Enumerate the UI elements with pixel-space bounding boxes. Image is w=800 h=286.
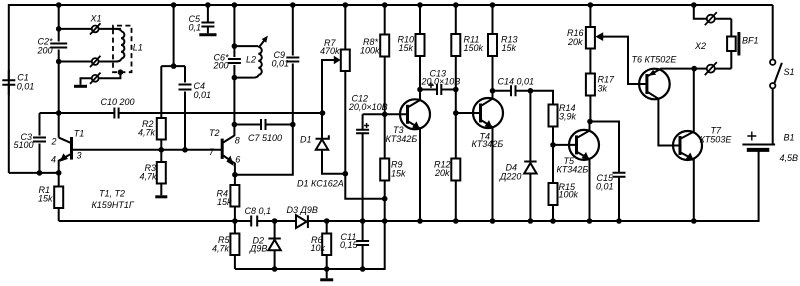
resistor R9	[380, 114, 406, 221]
resistor R11	[451, 2, 483, 113]
svg-text:КТ342Б: КТ342Б	[386, 134, 418, 144]
capacitor C1	[2, 70, 34, 95]
node T4 base junction	[453, 110, 459, 116]
svg-text:КТ342Б: КТ342Б	[472, 139, 504, 149]
node R9 link	[382, 218, 388, 224]
capacitor C7	[248, 119, 282, 143]
capacitor C5	[189, 2, 217, 35]
wire C6 tank line	[233, 5, 235, 125]
svg-text:5100: 5100	[14, 140, 34, 150]
svg-text:КТ503Е: КТ503Е	[700, 134, 733, 144]
node D4 rail	[528, 218, 534, 224]
svg-text:КТ342Б: КТ342Б	[557, 165, 589, 175]
svg-text:0,01: 0,01	[17, 82, 35, 92]
speaker BF1	[727, 19, 758, 69]
diode D4	[499, 91, 537, 221]
node C7 C9 junction	[290, 122, 296, 128]
node R2 R3 divider	[159, 147, 165, 153]
svg-text:3,9k: 3,9k	[559, 112, 577, 122]
wire T5 base	[553, 144, 577, 146]
svg-text:L1: L1	[133, 42, 143, 52]
svg-text:Д220: Д220	[499, 171, 521, 181]
node T6 emitter X2	[691, 66, 697, 72]
wire X1 pin2	[59, 61, 92, 63]
transistor T3	[386, 90, 431, 222]
wire X2 bottom	[694, 68, 707, 70]
resistor R2	[138, 118, 166, 150]
resistor R12	[434, 113, 460, 221]
svg-text:B1: B1	[784, 132, 795, 142]
node C3 bottom junction	[37, 170, 43, 176]
wire T3 base line	[363, 113, 408, 115]
resistor R3	[140, 150, 168, 197]
node core tap	[118, 69, 124, 75]
svg-text:6: 6	[235, 154, 240, 164]
svg-text:BF1: BF1	[742, 36, 759, 46]
wire T1 T2 base line	[73, 149, 222, 151]
svg-text:X1: X1	[90, 14, 102, 24]
capacitor C8	[245, 206, 272, 227]
node T3 emitter rail	[417, 218, 423, 224]
node T7 emitter rail	[691, 218, 697, 224]
capacitor C15	[590, 122, 626, 222]
ground R3	[155, 195, 167, 198]
svg-text:C14 0,01: C14 0,01	[498, 76, 535, 86]
capacitor C6*	[213, 52, 241, 70]
wire left emitter return	[9, 172, 59, 174]
capacitor C10	[101, 97, 135, 119]
node bus end R7 D1	[320, 110, 326, 116]
svg-text:15k: 15k	[38, 194, 53, 204]
zener D1	[300, 113, 345, 174]
capacitor C4	[179, 81, 212, 100]
transistor T6	[632, 54, 695, 145]
transistor T5	[557, 122, 600, 222]
svg-text:4,7k: 4,7k	[138, 127, 156, 137]
node R12 rail	[453, 218, 459, 224]
arrow L2 tuning	[259, 40, 265, 48]
resistor R4	[217, 175, 240, 221]
resistor R8*	[360, 2, 389, 114]
svg-text:T1, T2: T1, T2	[99, 188, 125, 198]
svg-text:S1: S1	[784, 67, 795, 77]
switch S1	[770, 5, 795, 145]
wire X2 top	[694, 5, 707, 19]
wire C14 to R14	[530, 91, 553, 105]
node C12 C11	[360, 218, 366, 224]
battery B1	[742, 132, 798, 163]
diode D3	[287, 205, 318, 228]
svg-text:100k: 100k	[360, 46, 380, 56]
svg-text:15k: 15k	[502, 43, 517, 53]
wire R2 C4 feed	[161, 5, 185, 150]
resistor R6	[311, 221, 332, 269]
svg-text:20,0×10В: 20,0×10В	[348, 102, 388, 112]
svg-text:100k: 100k	[559, 190, 579, 200]
wire C7 collector line	[234, 124, 292, 126]
svg-text:К159НТ1Г: К159НТ1Г	[92, 200, 135, 210]
svg-text:200: 200	[37, 46, 53, 56]
node T1 emitter junction	[56, 170, 62, 176]
svg-text:0,1: 0,1	[189, 23, 202, 33]
ground sub rail	[326, 269, 328, 278]
node R4 R5	[232, 218, 238, 224]
node T2 collector	[232, 122, 238, 128]
svg-text:C7 5100: C7 5100	[248, 133, 282, 143]
node R9 R7 link	[382, 196, 388, 202]
node D3 R6	[324, 218, 330, 224]
svg-text:T2: T2	[209, 128, 220, 138]
node R6 ground sub	[324, 266, 330, 272]
svg-text:3k: 3k	[598, 83, 608, 93]
capacitor C11	[340, 221, 369, 269]
svg-text:C8 0,1: C8 0,1	[245, 206, 272, 216]
wire X1 pin1	[59, 28, 92, 30]
transistor T1	[51, 128, 85, 173]
svg-text:20k: 20k	[434, 168, 450, 178]
svg-text:4,7k: 4,7k	[140, 171, 158, 181]
transistor T4	[472, 91, 504, 221]
ground C5	[199, 33, 216, 36]
svg-text:0,01: 0,01	[272, 58, 290, 68]
svg-text:D1: D1	[300, 134, 312, 144]
svg-text:10k: 10k	[311, 243, 326, 253]
core dashed box L1	[113, 26, 132, 73]
resistor R10	[398, 2, 425, 89]
node X1 pin2 tap	[56, 59, 62, 65]
svg-text:150k: 150k	[464, 43, 484, 53]
node D2 sub	[272, 266, 278, 272]
resistor R16 potentiometer	[567, 2, 647, 84]
node R8 R9 base	[382, 112, 388, 118]
svg-text:4: 4	[51, 154, 56, 164]
resistor R5	[212, 221, 239, 269]
node T5 collector R17 C15	[587, 119, 593, 125]
wire detector bus	[40, 112, 323, 114]
node C4 tap	[182, 147, 188, 153]
svg-text:X2: X2	[694, 41, 706, 51]
svg-text:470k: 470k	[320, 46, 340, 56]
resistor R13	[488, 2, 518, 91]
node X1 pin1 tap	[56, 26, 62, 32]
node T4 emitter rail	[490, 218, 496, 224]
node C11 sub	[360, 266, 366, 272]
capacitor C13	[417, 68, 460, 95]
svg-text:0,01: 0,01	[596, 182, 614, 192]
wire T4 base	[456, 112, 481, 114]
svg-text:15k: 15k	[217, 197, 232, 207]
capacitor C14	[490, 76, 534, 96]
wire X1 pin3	[92, 75, 99, 82]
node T5 emitter rail	[587, 218, 593, 224]
svg-text:0,15: 0,15	[340, 240, 359, 250]
transistor T2	[209, 125, 240, 175]
node C15 rail	[616, 218, 622, 224]
diode D2	[249, 221, 281, 269]
wire main bottom rail	[59, 149, 759, 221]
svg-text:D1 КС162А: D1 КС162А	[297, 179, 344, 189]
wire T2 emitter feedback	[235, 125, 293, 175]
svg-text:20,0×10В: 20,0×10В	[421, 76, 461, 86]
node T5 base junction	[550, 142, 556, 148]
svg-text:2: 2	[51, 137, 57, 147]
node D2 tap	[272, 218, 278, 224]
svg-text:L2: L2	[246, 55, 256, 65]
resistor R1	[38, 173, 63, 221]
resistor R15	[549, 145, 579, 221]
svg-text:Д9В: Д9В	[249, 244, 267, 254]
wire T7 collector	[693, 69, 695, 132]
capacitor C3	[14, 113, 47, 173]
connector X2	[691, 2, 731, 75]
capacitor C9	[272, 2, 300, 124]
svg-text:15k: 15k	[391, 169, 406, 179]
capacitor C12	[348, 93, 388, 221]
node T2 emitter	[232, 172, 238, 178]
svg-text:4,5В: 4,5В	[780, 153, 799, 163]
node R15 rail	[550, 218, 556, 224]
svg-text:20k: 20k	[567, 37, 583, 47]
svg-text:C10 200: C10 200	[101, 97, 135, 107]
inductor L2	[234, 36, 268, 78]
svg-text:200: 200	[213, 60, 229, 70]
wire top supply rail	[9, 5, 773, 173]
svg-text:D3 Д9В: D3 Д9В	[287, 205, 318, 215]
capacitor C2*	[37, 36, 68, 55]
svg-text:T1: T1	[74, 128, 85, 138]
svg-text:15k: 15k	[399, 43, 414, 53]
svg-text:8: 8	[235, 135, 240, 145]
wiper R7	[334, 56, 341, 65]
resistor R14	[549, 103, 577, 145]
svg-text:3: 3	[77, 150, 82, 160]
potentiometer R7	[320, 2, 350, 174]
wire R7 to R9 link	[345, 174, 384, 199]
transistor T7	[673, 125, 732, 221]
wire C2 / T1 collector line	[58, 5, 60, 138]
ground X1	[74, 85, 87, 88]
node D1 R7 junction	[343, 171, 349, 177]
node T1 collector bus junction	[56, 110, 62, 116]
node rail-C2	[56, 2, 62, 8]
inductor L1 magnetic antenna	[113, 26, 143, 75]
svg-text:4,7k: 4,7k	[212, 243, 230, 253]
wiper R16	[595, 32, 603, 41]
svg-text:0,01: 0,01	[194, 90, 212, 100]
svg-text:T6 КТ502Е: T6 КТ502Е	[632, 54, 678, 64]
connector X1	[59, 14, 121, 87]
wire bottom sub rail	[235, 221, 385, 269]
resistor R17	[586, 49, 615, 122]
